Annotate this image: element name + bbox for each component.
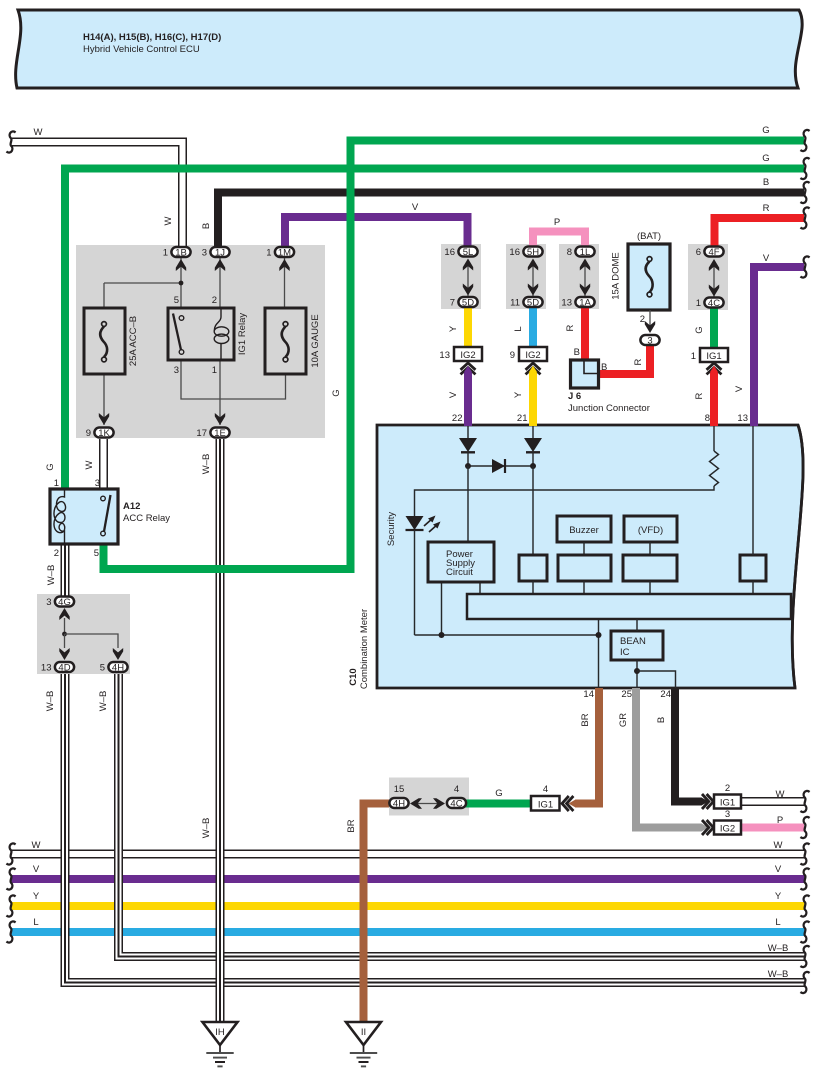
red wire tip at chevrons xyxy=(710,366,719,373)
connector 1A xyxy=(575,297,594,309)
svg-text:11: 11 xyxy=(510,298,520,309)
gray band: connectors 1L/1A xyxy=(559,244,599,309)
svg-text:1M: 1M xyxy=(278,248,291,259)
svg-text:4D: 4D xyxy=(58,663,70,674)
wire W-B from connector 4D: vertical then W-B2 horizontal xyxy=(65,674,805,983)
svg-text:13: 13 xyxy=(439,350,450,361)
node D junction dot xyxy=(596,632,602,638)
meter internal: wire buzzer to driver box xyxy=(583,542,585,555)
svg-text:6: 6 xyxy=(696,247,701,258)
break glyph P bottom-right xyxy=(800,817,809,838)
svg-text:15A DOME: 15A DOME xyxy=(611,252,622,300)
meter internal: Buzzer box xyxy=(557,516,611,542)
svg-text:IG2: IG2 xyxy=(525,350,540,361)
svg-text:Circuit: Circuit xyxy=(446,567,473,578)
svg-text:Y: Y xyxy=(448,325,459,332)
wire V from 1M to 5L xyxy=(285,217,468,250)
svg-text:Hybrid Vehicle Control ECU: Hybrid Vehicle Control ECU xyxy=(83,44,200,55)
svg-text:(BAT): (BAT) xyxy=(637,231,661,242)
relay block internal wire coil pin1 to 1E xyxy=(219,360,221,425)
chevrons into IG1 (pin 2) xyxy=(702,794,713,809)
svg-text:B: B xyxy=(574,347,580,358)
meter internal: diode D3 horizontal xyxy=(492,459,505,473)
fuse 10A GAUGE xyxy=(265,308,306,374)
svg-text:8: 8 xyxy=(705,413,710,424)
break glyph G2 right xyxy=(800,158,809,179)
connector circle 3 xyxy=(640,335,659,347)
meter internal: wire node E to pin 24 xyxy=(637,671,676,688)
wire P from IG2 to ECU (bottom right) xyxy=(741,824,804,832)
wire L from 5D to IG2 xyxy=(529,306,537,347)
arrow into circle 3 xyxy=(645,321,655,333)
svg-text:G: G xyxy=(762,153,769,164)
svg-text:A12: A12 xyxy=(123,501,140,512)
gray band: connectors 5L/5D xyxy=(441,244,481,309)
svg-text:4C: 4C xyxy=(708,298,720,309)
svg-text:L: L xyxy=(513,326,524,331)
wire W bottom horizontal (double line) xyxy=(11,850,805,859)
meter internal: wire from pin21 to diode xyxy=(532,426,534,438)
svg-text:1: 1 xyxy=(696,298,701,309)
arrow into 1B xyxy=(176,259,186,271)
svg-text:Y: Y xyxy=(775,891,782,902)
wire node F to 4H xyxy=(65,634,119,648)
meter internal: wire box B to bus xyxy=(583,581,585,594)
svg-text:IG1 Relay: IG1 Relay xyxy=(237,313,248,355)
svg-text:W–B: W–B xyxy=(45,691,56,712)
svg-text:IG1: IG1 xyxy=(538,800,553,811)
svg-text:4C: 4C xyxy=(450,799,462,810)
meter internal: wire box D to bus xyxy=(752,581,754,594)
svg-text:BEAN: BEAN xyxy=(620,636,646,647)
relay A12 ACC Relay xyxy=(50,489,118,544)
svg-text:L: L xyxy=(33,917,38,928)
connector 1M xyxy=(275,247,294,259)
gray band: connectors 4F/4C xyxy=(688,244,728,310)
purple wire tip at chevrons xyxy=(464,366,473,373)
svg-text:1E: 1E xyxy=(214,428,226,439)
meter internal: BEAN IC box xyxy=(611,631,663,660)
svg-text:Security: Security xyxy=(386,512,397,547)
chevrons right of IG1 (4) xyxy=(562,796,573,811)
svg-text:10A GAUGE: 10A GAUGE xyxy=(310,314,321,367)
svg-text:4: 4 xyxy=(454,784,459,795)
svg-text:13: 13 xyxy=(737,413,748,424)
svg-text:L: L xyxy=(775,917,780,928)
wire G1: A12 pin5 up to ECU G xyxy=(104,141,805,570)
svg-text:W–B: W–B xyxy=(768,943,789,954)
junction block IG1 (pin 1) xyxy=(700,348,728,362)
svg-text:3: 3 xyxy=(46,597,51,608)
connector 4H (left) xyxy=(108,662,127,674)
break glyph V right xyxy=(800,256,809,277)
svg-text:21: 21 xyxy=(517,413,528,424)
connector 4C (bottom) xyxy=(447,798,466,810)
break glyph L bottom left xyxy=(6,921,15,942)
svg-text:J 6: J 6 xyxy=(568,391,581,402)
wire G from 4C to IG1 xyxy=(710,306,718,348)
wire BR from meter pin14 to IG1 chevrons xyxy=(576,688,600,804)
wire W-B from connector 1E down to ground IH xyxy=(216,439,225,1022)
meter internal: Power Supply Circuit box xyxy=(428,542,494,582)
meter internal: wire PSC bottom to bus bar xyxy=(479,582,481,594)
connector 5L xyxy=(458,247,477,259)
wire Y from IG2 to meter pin 21 xyxy=(529,372,537,426)
svg-text:16: 16 xyxy=(444,247,455,258)
junction block IG2 (pin 3) xyxy=(714,821,741,835)
wire R from ECU to connector 4F xyxy=(715,218,805,248)
brown wire tip at chevrons xyxy=(569,799,577,808)
svg-text:1: 1 xyxy=(163,248,168,259)
connector 1L xyxy=(575,247,594,259)
relay block internal wire fuse ACC-B to 1K xyxy=(103,374,105,425)
break glyph V bottom left xyxy=(6,868,15,889)
svg-text:W–B: W–B xyxy=(201,454,212,475)
svg-text:8: 8 xyxy=(567,247,572,258)
svg-text:5H: 5H xyxy=(527,247,539,258)
svg-text:4H: 4H xyxy=(112,663,124,674)
junction block IG1 (pin 4) xyxy=(531,796,560,811)
junction block IG2 (pin 13) xyxy=(454,347,482,361)
wire W from IG1 to ECU (bottom right, double) xyxy=(741,797,804,806)
svg-text:IH: IH xyxy=(215,1027,225,1038)
svg-text:W–B: W–B xyxy=(46,565,57,586)
svg-text:W: W xyxy=(34,127,43,138)
connector 5H xyxy=(523,247,542,259)
connector 4C (top) xyxy=(704,298,723,310)
svg-text:R: R xyxy=(565,324,576,331)
svg-text:G: G xyxy=(762,125,769,136)
svg-text:5L: 5L xyxy=(463,247,474,258)
wire B from meter pin24 to IG1 chevrons xyxy=(675,688,702,802)
svg-text:P: P xyxy=(554,217,560,228)
connector pair 4H/4C mating arrows (bottom) xyxy=(410,798,445,808)
break glyph V bottom right xyxy=(800,868,809,889)
connector 4G xyxy=(55,597,74,621)
svg-text:V: V xyxy=(763,253,770,264)
connector 5D (left) xyxy=(458,297,477,309)
break glyph W-B1 right xyxy=(800,946,809,967)
wire P from 5H to 1L xyxy=(533,232,585,251)
combination meter C10 body xyxy=(377,425,803,688)
connector 4H (bottom) xyxy=(389,798,408,810)
connector pair 5H/5D mating arrows xyxy=(528,259,538,297)
svg-text:17: 17 xyxy=(196,428,207,439)
meter internal: wire security bus horizontal xyxy=(415,634,599,636)
meter internal: wire resistor to security LED xyxy=(415,486,715,516)
chevrons into IG2 (pin 3) xyxy=(702,820,713,835)
svg-text:5: 5 xyxy=(94,548,99,559)
svg-text:3: 3 xyxy=(647,336,652,347)
relay block internal wire 1J to relay coil pin2 xyxy=(219,258,221,308)
meter internal: driver box C xyxy=(623,555,677,581)
wire R from IG1 to meter pin 8 xyxy=(710,372,718,426)
node F junction dot xyxy=(62,632,67,637)
svg-text:2: 2 xyxy=(54,548,59,559)
arrow into 1J xyxy=(215,259,225,271)
meter internal: wire between node A and node B xyxy=(468,465,533,467)
svg-text:IG2: IG2 xyxy=(720,824,735,835)
meter internal: wire node B to box A xyxy=(532,466,534,555)
meter internal: wire pin13 to box D xyxy=(752,426,754,555)
svg-text:1: 1 xyxy=(54,478,59,489)
chevrons below IG2 (9) xyxy=(526,363,541,374)
svg-text:C10: C10 xyxy=(348,668,359,685)
svg-text:R: R xyxy=(763,203,770,214)
svg-text:2: 2 xyxy=(725,783,730,794)
meter internal: resistor R1 xyxy=(710,451,719,486)
gray wire tip at chevrons xyxy=(701,823,709,832)
connector 5D (right) xyxy=(523,297,542,309)
node A junction dot xyxy=(465,463,471,469)
svg-text:IG1: IG1 xyxy=(720,798,735,809)
svg-text:1B: 1B xyxy=(175,248,187,259)
meter torn right edge redraw xyxy=(792,425,803,688)
break glyph W bottom left xyxy=(6,843,15,864)
wire BR from 4H down to ground II xyxy=(364,804,390,1023)
wire 4G to node F xyxy=(64,618,66,634)
connector 4D xyxy=(55,662,74,674)
svg-text:3: 3 xyxy=(202,248,207,259)
meter internal: wire bus to BEAN IC xyxy=(636,619,638,631)
svg-text:B: B xyxy=(201,223,212,229)
wire V right from ECU down to meter pin 13 xyxy=(754,267,804,426)
relay block internal wire relay pin3 to fuse GAUGE bottom xyxy=(181,360,286,399)
svg-text:1: 1 xyxy=(212,365,217,376)
svg-text:BR: BR xyxy=(346,819,357,832)
svg-text:16: 16 xyxy=(509,247,520,258)
svg-text:Y: Y xyxy=(513,391,524,398)
black wire tip at chevrons xyxy=(701,797,709,806)
junction block IG1 (pin 2) xyxy=(714,795,741,809)
connector pair 5L/5D mating arrows xyxy=(463,259,473,297)
svg-text:G: G xyxy=(331,389,342,396)
break glyph W bottom-right connector xyxy=(800,791,809,812)
meter internal: driver box B xyxy=(558,555,611,581)
chevrons below IG2 (13) xyxy=(461,363,476,374)
break glyph R right xyxy=(800,207,809,228)
svg-text:25A ACC–B: 25A ACC–B xyxy=(128,316,139,366)
svg-text:4G: 4G xyxy=(58,597,71,608)
meter internal: wire diode D1 to node xyxy=(467,452,469,466)
meter internal: wire pin8 to resistor xyxy=(713,426,715,451)
arrow into 4H xyxy=(113,648,123,660)
gray band: connectors 4H/4C bottom xyxy=(389,778,469,816)
wire L bottom horizontal xyxy=(11,928,805,936)
meter internal: wire node A to Power Supply Circuit xyxy=(467,466,469,542)
svg-text:W: W xyxy=(163,216,174,225)
svg-text:ACC Relay: ACC Relay xyxy=(123,513,170,524)
svg-text:2: 2 xyxy=(640,314,645,325)
svg-text:1A: 1A xyxy=(579,298,591,309)
svg-text:13: 13 xyxy=(561,298,572,309)
svg-text:14: 14 xyxy=(583,689,594,700)
svg-text:II: II xyxy=(361,1027,366,1038)
svg-text:3: 3 xyxy=(95,478,100,489)
svg-text:4F: 4F xyxy=(708,247,719,258)
break glyph B right xyxy=(800,182,809,203)
ECU banner H14-H17 Hybrid Vehicle Control ECU xyxy=(16,10,803,88)
wire GR from meter pin25 to IG2 chevrons xyxy=(636,688,702,828)
svg-text:5D: 5D xyxy=(527,298,539,309)
svg-text:B: B xyxy=(656,717,667,723)
svg-text:G: G xyxy=(45,463,56,470)
break glyph W bottom right xyxy=(800,843,809,864)
meter internal: wire from pin22 to diode xyxy=(467,426,469,438)
svg-text:5: 5 xyxy=(174,295,179,306)
wire G from 4C to IG1 (bottom) xyxy=(464,800,531,808)
svg-text:IG1: IG1 xyxy=(706,351,721,362)
connector 4F xyxy=(704,247,723,259)
svg-text:P: P xyxy=(777,815,783,826)
wire B horizontal from ECU to connector 1J xyxy=(218,193,804,249)
svg-text:3: 3 xyxy=(174,365,179,376)
junction connector J6 xyxy=(571,360,599,388)
svg-text:V: V xyxy=(448,391,459,398)
meter internal: wire VFD to driver box xyxy=(649,542,651,555)
svg-text:W: W xyxy=(32,840,41,851)
svg-text:Combination Meter: Combination Meter xyxy=(359,609,370,689)
svg-text:V: V xyxy=(412,202,419,213)
wire V from IG2 to meter pin 22 xyxy=(464,372,472,426)
gray band: relay block (fuse/relay box) xyxy=(76,245,325,438)
wire Y from 5D to IG2 xyxy=(464,306,472,347)
connector 1J xyxy=(210,247,229,259)
junction dot below 1B xyxy=(179,281,184,286)
wire G2: ECU G to A12 pin 1 xyxy=(65,169,804,490)
wire Y bottom horizontal xyxy=(11,902,805,910)
svg-text:1: 1 xyxy=(691,351,696,362)
svg-text:15: 15 xyxy=(394,784,405,795)
break glyph W-B2 right xyxy=(800,972,809,993)
svg-text:1J: 1J xyxy=(215,248,225,259)
meter internal: wire diode D2 to node xyxy=(532,452,534,466)
meter internal: diode D2 below pin 21 xyxy=(524,438,542,452)
svg-text:R: R xyxy=(633,358,644,365)
connector pair 1L/1A mating arrows xyxy=(580,259,590,297)
meter internal: wire box C to bus xyxy=(649,581,651,594)
svg-text:IG2: IG2 xyxy=(460,350,475,361)
meter internal: driver box D xyxy=(740,555,766,581)
node C junction dot xyxy=(439,632,445,638)
svg-text:22: 22 xyxy=(452,413,463,424)
meter internal: VFD box xyxy=(624,516,677,542)
meter internal: wire box A to bus xyxy=(532,581,534,594)
svg-text:BR: BR xyxy=(580,713,591,726)
meter internal: wire bus bar to pin 14 xyxy=(598,619,600,688)
fuse 15A DOME xyxy=(628,244,670,310)
junction block IG2 (pin 9) xyxy=(519,347,547,361)
ground IH xyxy=(203,1022,238,1066)
svg-text:V: V xyxy=(734,385,745,392)
wire R from 1A to junction J6 xyxy=(581,306,589,362)
svg-text:13: 13 xyxy=(41,663,52,674)
svg-text:Buzzer: Buzzer xyxy=(569,525,599,536)
meter internal: diode D1 below pin 22 xyxy=(459,438,477,452)
svg-text:W–B: W–B xyxy=(201,818,212,839)
svg-text:5: 5 xyxy=(100,663,105,674)
connector 1B xyxy=(171,247,190,259)
svg-text:B: B xyxy=(601,362,607,373)
svg-text:9: 9 xyxy=(510,350,515,361)
wire W-B from A12 pin2 to 4G xyxy=(61,542,70,598)
svg-text:V: V xyxy=(33,864,40,875)
svg-text:H14(A), H15(B), H16(C), H17(D): H14(A), H15(B), H16(C), H17(D) xyxy=(83,32,221,43)
break glyph W top left xyxy=(6,131,15,152)
relay block internal wire node to fuse ACC-B xyxy=(104,283,181,308)
relay IG1 box xyxy=(168,308,234,360)
relay block internal wire 1B node to relay pin5 xyxy=(180,258,182,308)
meter internal: driver box A xyxy=(519,555,547,581)
svg-text:24: 24 xyxy=(660,689,671,700)
svg-text:W–B: W–B xyxy=(768,969,789,980)
meter internal: wire PSC bottom to node C xyxy=(441,582,443,635)
svg-text:3: 3 xyxy=(725,809,730,820)
wire W from ECU to connector 1B (double line) xyxy=(12,142,183,248)
break glyph Y bottom right xyxy=(800,895,809,916)
break glyph Y bottom left xyxy=(6,895,15,916)
node E junction dot xyxy=(634,668,640,674)
svg-text:Junction Connector: Junction Connector xyxy=(568,403,650,414)
svg-text:W–B: W–B xyxy=(98,691,109,712)
svg-text:2: 2 xyxy=(212,295,217,306)
svg-text:7: 7 xyxy=(450,298,455,309)
meter internal: security LED xyxy=(406,516,441,533)
node B junction dot xyxy=(530,463,536,469)
svg-text:5D: 5D xyxy=(462,298,474,309)
chevrons below IG1 (1) xyxy=(707,363,722,374)
arrow into 1M xyxy=(279,259,289,271)
svg-text:IC: IC xyxy=(620,647,630,658)
svg-text:GR: GR xyxy=(618,713,629,727)
svg-text:(VFD): (VFD) xyxy=(638,525,663,536)
svg-text:Y: Y xyxy=(33,891,40,902)
gray band: connectors 4G/4D/4H xyxy=(37,594,130,674)
wire node F to 4D xyxy=(64,634,66,648)
ground II xyxy=(346,1022,381,1066)
svg-text:G: G xyxy=(694,326,705,333)
svg-text:9: 9 xyxy=(86,428,91,439)
svg-text:25: 25 xyxy=(621,689,632,700)
yellow wire tip at chevrons xyxy=(529,366,538,373)
meter internal: wire security LED down xyxy=(414,530,416,635)
svg-text:W: W xyxy=(776,789,785,800)
connector pair 4F/4C mating arrows xyxy=(709,259,719,297)
wire R from J6 to fuse circle 3 xyxy=(596,345,650,374)
arrow into 1K xyxy=(99,413,109,425)
svg-text:B: B xyxy=(763,177,769,188)
wire W-B from connector 4H: vertical then W-B1 horizontal xyxy=(119,674,806,957)
svg-text:4H: 4H xyxy=(393,799,405,810)
arrow into 1E xyxy=(215,413,225,425)
meter internal: wire BEAN IC to node E xyxy=(636,660,638,688)
svg-text:R: R xyxy=(694,392,705,399)
wire W from 1K to A12 pin 3 (double line) xyxy=(99,439,108,489)
svg-text:W: W xyxy=(84,460,95,469)
fuse 25A ACC-B xyxy=(84,308,125,374)
wire DOME pin 2 to circle 3 xyxy=(649,310,651,327)
svg-text:1L: 1L xyxy=(580,247,591,258)
svg-text:W: W xyxy=(774,840,783,851)
wire V bottom horizontal xyxy=(11,875,805,883)
break glyph L bottom right xyxy=(800,921,809,942)
meter internal: bus bar xyxy=(467,594,791,619)
svg-text:4: 4 xyxy=(543,784,548,795)
arrow into 4D xyxy=(59,648,69,660)
break glyph G1 right xyxy=(800,130,809,151)
gray band: connectors 5H/5D xyxy=(506,244,546,309)
connector 1K xyxy=(94,428,113,440)
